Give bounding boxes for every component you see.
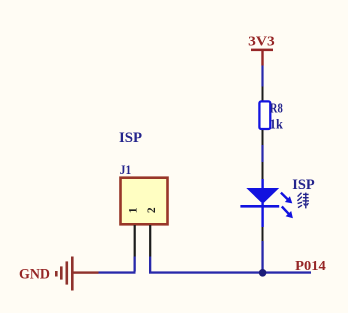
power port 3V3 stem [261, 51, 263, 66]
wire pin1 vertical [134, 257, 136, 272]
svg-text:1k: 1k [270, 117, 283, 132]
wire pin2 to P014 horizontal [149, 271, 311, 273]
svg-text:J1: J1 [120, 162, 131, 177]
GND stem [74, 271, 99, 273]
GND bar 3 [60, 266, 63, 279]
LED cathode pin [262, 227, 264, 241]
resistor R8 body [259, 101, 270, 129]
GND bar 4 (smallest) [55, 271, 58, 277]
LED cathode bar [240, 205, 279, 208]
wire pin1 to GND horizontal [99, 271, 136, 273]
LED triangle (anode) [246, 188, 279, 204]
GND bar 1 (tallest) [71, 257, 74, 291]
svg-text:ISP: ISP [119, 130, 142, 146]
connector J1 body [121, 178, 168, 225]
wire resistor to LED [261, 145, 263, 162]
svg-text:1: 1 [128, 207, 140, 213]
power port 3V3 bar symbol [251, 49, 273, 52]
connector pin 2 [149, 225, 151, 257]
junction dot [259, 269, 267, 277]
LED anode lead [261, 179, 263, 189]
svg-text:3V3: 3V3 [248, 35, 275, 50]
LED light emission arrow 1 [281, 193, 288, 200]
wire 3V3 to resistor [261, 66, 263, 87]
svg-text:P014: P014 [295, 259, 326, 274]
LED color label 绿 (hand-drawn glyph) [297, 193, 309, 209]
resistor R8 pin 2 (bottom) [262, 130, 264, 145]
svg-text:R8: R8 [270, 102, 283, 117]
connector pin 1 [134, 225, 136, 257]
svg-text:2: 2 [146, 207, 158, 213]
svg-text:GND: GND [19, 266, 50, 282]
LED light emission arrow 2 [282, 207, 289, 215]
GND bar 2 [66, 261, 69, 284]
resistor R8 pin 1 (top) [262, 87, 264, 101]
wire LED to junction [261, 241, 263, 272]
svg-text:ISP: ISP [292, 177, 315, 193]
LED cathode lead [261, 203, 263, 227]
LED anode pin [262, 162, 264, 179]
wire pin2 vertical [149, 257, 151, 272]
